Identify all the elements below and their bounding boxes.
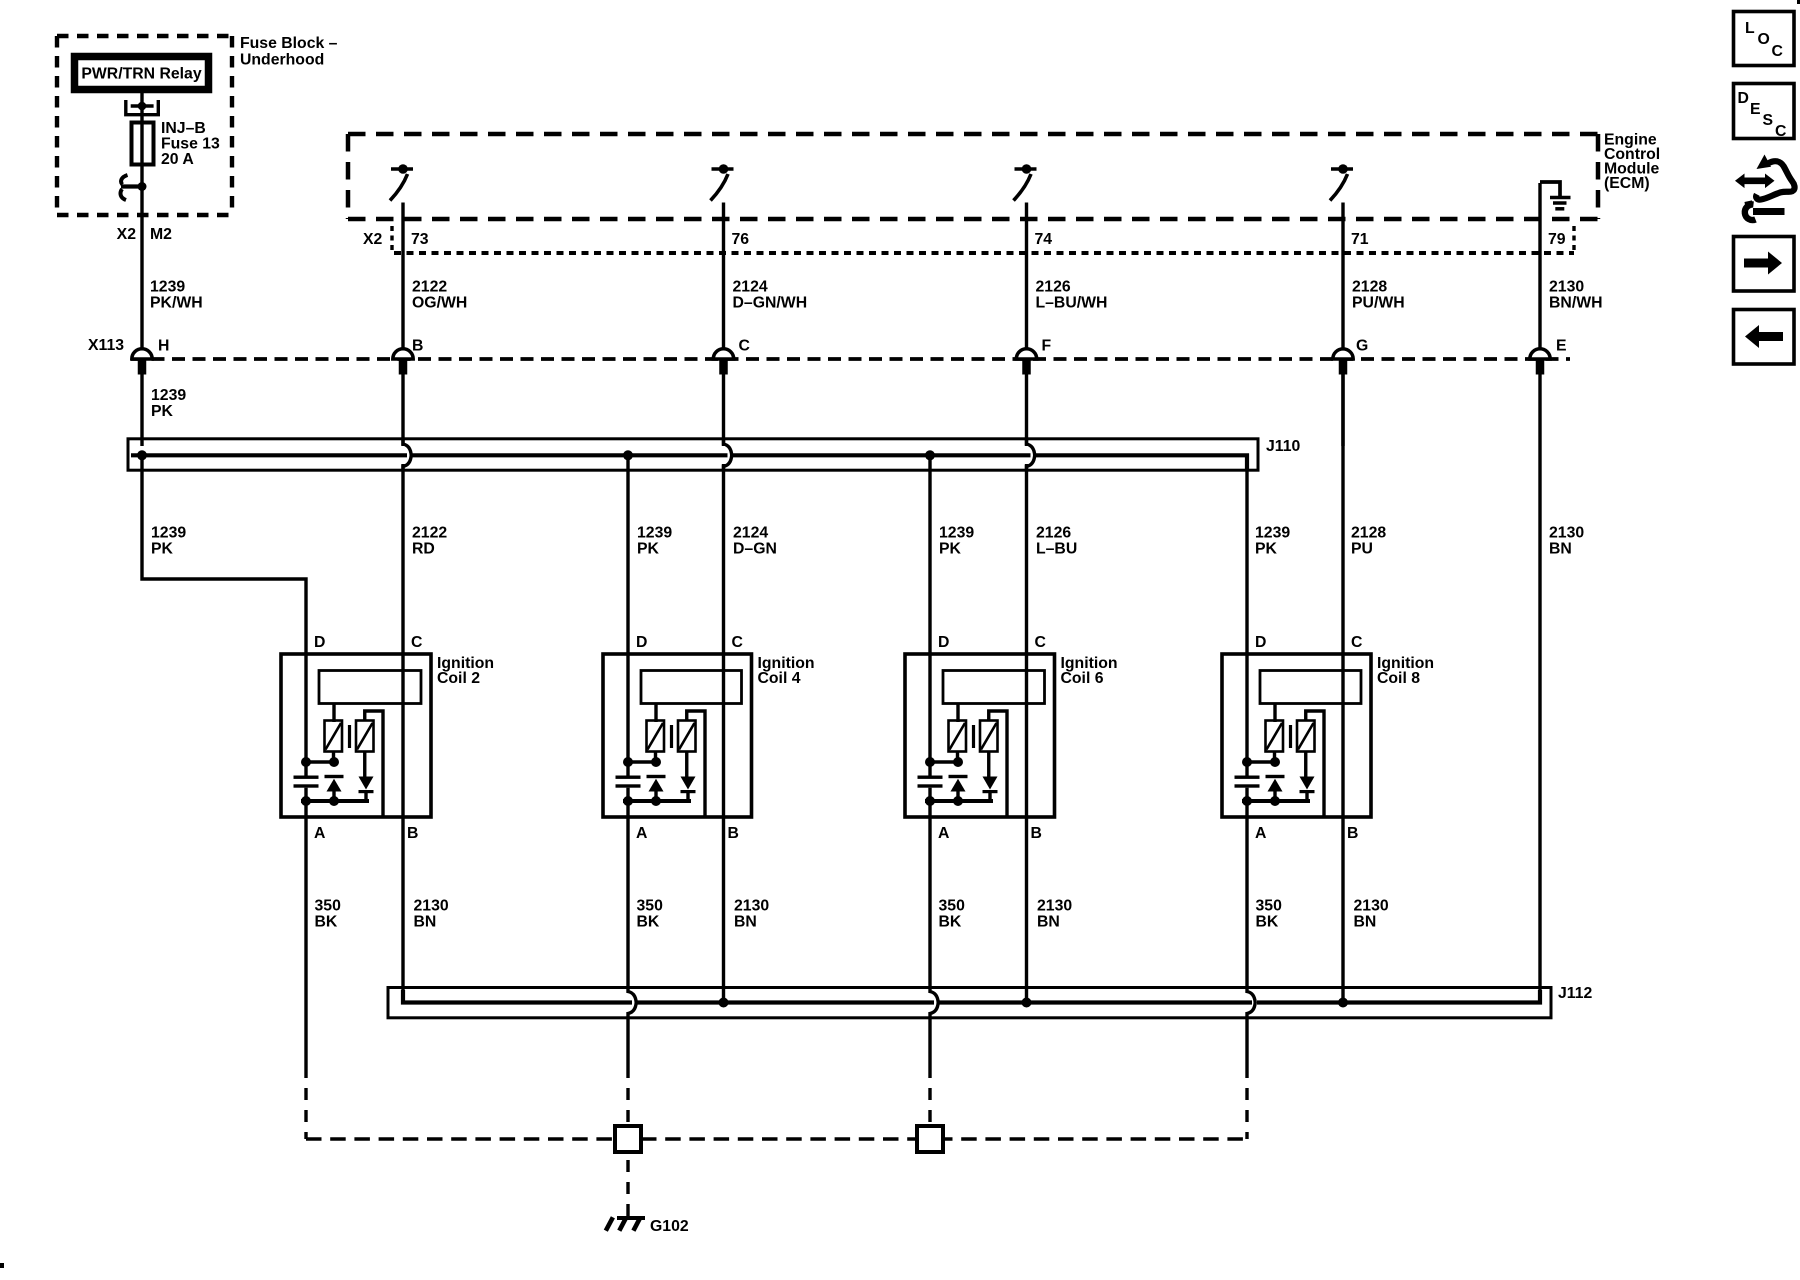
coil 2 resistor right	[356, 721, 374, 752]
fuse block label	[240, 35, 338, 69]
ignition coil 8 label	[1377, 655, 1434, 687]
relay contact PWR/TRN	[120, 175, 146, 200]
coil 2 zener diode	[325, 775, 344, 801]
svg-text:1239: 1239	[150, 279, 185, 296]
svg-text:BN: BN	[734, 914, 757, 931]
svg-text:BK: BK	[637, 914, 660, 931]
svg-text:RD: RD	[412, 541, 435, 558]
coil 6 wire pin A down	[928, 801, 931, 817]
svg-text:2124: 2124	[733, 525, 768, 542]
wire label 2126	[1036, 525, 1077, 558]
coil 6 core bar	[972, 725, 975, 748]
dashed ground wire left	[304, 1088, 307, 1139]
svg-text:PK: PK	[1255, 541, 1278, 558]
svg-text:D: D	[938, 634, 949, 651]
svg-text:2130: 2130	[1549, 525, 1584, 542]
splice pack J110 bus bar	[131, 455, 1247, 470]
wire 1239 PK feed to coil 8	[1245, 468, 1248, 654]
engine control module ECM dashed box	[348, 134, 1598, 219]
ground splice S2	[917, 1126, 943, 1152]
wire 2128 PU to coil 8 pin C	[1341, 374, 1344, 654]
wire label 2124	[733, 279, 808, 312]
coil 4 wire pin A down	[626, 801, 629, 817]
wire coil pin A through J112	[1247, 817, 1255, 1078]
svg-text:PU: PU	[1351, 541, 1373, 558]
splice pack J110 outline	[128, 439, 1258, 470]
wire contact to connector X2 pin M2	[140, 187, 143, 350]
PWR/TRN Relay box	[75, 57, 209, 90]
X113 socket pin F	[1016, 349, 1036, 375]
svg-text:(ECM): (ECM)	[1604, 175, 1650, 192]
splice pack J112 outline	[388, 988, 1551, 1018]
svg-text:G: G	[1356, 338, 1368, 355]
wire label 2130 BN/WH	[1549, 279, 1603, 312]
svg-text:E: E	[1750, 101, 1761, 118]
svg-text:B: B	[412, 338, 423, 355]
wire 1239 PK feed to coil 6	[928, 455, 931, 654]
coil 8 junction bar upper	[1242, 752, 1280, 768]
wire label 350 BK	[315, 898, 342, 931]
svg-text:74: 74	[1035, 231, 1053, 248]
coil 8 wire C through box to pin B	[1341, 654, 1344, 817]
ECM driver switch 2	[711, 164, 734, 200]
svg-text:C: C	[1775, 123, 1786, 140]
coil 4 junction bar upper	[623, 752, 661, 768]
wire coil 6 pin B to J112	[1025, 817, 1028, 1003]
svg-text:A: A	[1255, 825, 1266, 842]
svg-text:2126: 2126	[1036, 525, 1071, 542]
connector X113 dotted line	[131, 357, 1570, 361]
svg-text:BN: BN	[1549, 541, 1572, 558]
svg-text:350: 350	[315, 898, 342, 915]
wire label 1239	[637, 525, 672, 558]
svg-text:2130: 2130	[1549, 279, 1584, 296]
ignition coil 6 label	[1061, 655, 1118, 687]
svg-text:BN: BN	[1037, 914, 1060, 931]
svg-text:S: S	[1763, 112, 1774, 129]
svg-text:B: B	[1031, 825, 1042, 842]
svg-text:A: A	[314, 825, 325, 842]
coil 4 wire winding to resistors	[654, 704, 657, 723]
svg-text:M2: M2	[150, 226, 172, 243]
wire coil 4 pin B to J112	[722, 817, 725, 1003]
coil 8 wire pin A down	[1245, 801, 1248, 817]
coil 8 junction bar lower	[1242, 796, 1310, 806]
J112 junction dot	[1338, 998, 1348, 1008]
svg-text:1239: 1239	[151, 525, 186, 542]
svg-text:BK: BK	[315, 914, 338, 931]
coil 4 resistor left	[647, 721, 665, 752]
coil 6 primary winding block	[943, 671, 1045, 704]
ECM connector row dotted line	[394, 251, 1574, 255]
connector separator left	[390, 226, 393, 253]
ECM driver switch 4	[1330, 164, 1353, 200]
wire crossover hop at J110	[403, 440, 411, 470]
coil 6 zener diode	[949, 775, 968, 801]
svg-text:H: H	[158, 338, 169, 355]
wire label 2130 BN	[1354, 898, 1389, 931]
svg-text:A: A	[636, 825, 647, 842]
wire 1239 PK feed to coil 4	[626, 455, 629, 654]
dashed ground wire from coil 4	[626, 1088, 629, 1126]
coil 4 core bar	[670, 725, 673, 748]
page corner mark top right	[1797, 0, 1800, 4]
splice pack J112 bus bar	[403, 990, 1540, 1003]
coil 6 capacitor	[918, 776, 943, 802]
coil 4 zener diode	[647, 775, 666, 801]
coil 8 resistor right	[1297, 721, 1315, 752]
wire relay to fuse clip	[140, 93, 143, 106]
svg-text:71: 71	[1351, 231, 1369, 248]
wire coil 2 pin A to ground net	[304, 817, 307, 1078]
wire ECM to X113	[722, 203, 725, 350]
coil 2 secondary return link	[365, 711, 383, 817]
J110 junction dot	[623, 450, 633, 460]
coil 4 secondary return link	[687, 711, 705, 817]
svg-text:76: 76	[732, 231, 750, 248]
ignition coil 6 box	[905, 654, 1055, 817]
svg-text:2126: 2126	[1036, 279, 1071, 296]
coil 4 diode	[681, 752, 696, 802]
svg-text:BK: BK	[939, 914, 962, 931]
wire label 1239 PK	[151, 387, 186, 420]
DESC icon box	[1734, 84, 1795, 141]
wire crossover hop at J110	[1027, 440, 1035, 470]
coil 6 junction bar lower	[925, 796, 993, 806]
J110 junction dot	[137, 450, 147, 460]
svg-text:2128: 2128	[1351, 525, 1386, 542]
svg-text:Underhood: Underhood	[240, 52, 324, 69]
connector separator right	[1572, 226, 1575, 253]
LOC icon box	[1734, 12, 1795, 66]
wire label 1239	[939, 525, 974, 558]
svg-text:L: L	[1745, 20, 1755, 37]
wire label 2124	[733, 525, 777, 558]
svg-text:PK: PK	[151, 541, 174, 558]
coil 8 core bar	[1289, 725, 1292, 748]
coil 2 wire pin A down	[304, 801, 307, 817]
wire ECM to X113	[1341, 203, 1344, 350]
svg-text:BN: BN	[414, 914, 437, 931]
svg-text:2130: 2130	[414, 898, 449, 915]
forward arrow icon box	[1734, 237, 1795, 292]
wire X113 to J110	[1025, 374, 1028, 446]
svg-text:D: D	[1738, 90, 1749, 107]
coil 8 capacitor	[1235, 776, 1260, 802]
svg-text:J110: J110	[1266, 438, 1300, 455]
coil 6 junction bar upper	[925, 752, 963, 768]
J112 junction dot	[719, 998, 729, 1008]
wire coil pin A through J112	[930, 817, 938, 1078]
svg-text:B: B	[728, 825, 739, 842]
wire ECM to X113	[1025, 203, 1028, 350]
svg-text:J112: J112	[1558, 985, 1592, 1002]
svg-text:1239: 1239	[1255, 525, 1290, 542]
coil 8 resistor left	[1266, 721, 1284, 752]
ignition coil 2 box	[281, 654, 431, 817]
svg-text:350: 350	[1256, 898, 1283, 915]
svg-text:L–BU/WH: L–BU/WH	[1036, 295, 1108, 312]
svg-text:PU/WH: PU/WH	[1352, 295, 1405, 312]
svg-text:BK: BK	[1256, 914, 1279, 931]
ignition coil 4 box	[603, 654, 752, 817]
wire label 2130 BN	[1037, 898, 1072, 931]
svg-text:Coil 8: Coil 8	[1377, 670, 1420, 687]
dashed ground line bottom	[306, 1137, 1247, 1140]
svg-text:L–BU: L–BU	[1036, 541, 1077, 558]
svg-text:Fuse 13: Fuse 13	[161, 136, 220, 153]
fuse block underhood dashed box	[57, 36, 232, 215]
svg-text:PWR/TRN Relay: PWR/TRN Relay	[81, 66, 201, 83]
svg-text:2130: 2130	[1037, 898, 1072, 915]
coil 4 resistor right	[678, 721, 696, 752]
wire crossover hop at J110	[724, 440, 732, 470]
coil 2 diode	[359, 752, 374, 802]
ignition coil 4 label	[758, 655, 815, 687]
wire label 2130 BN	[734, 898, 769, 931]
svg-text:X2: X2	[117, 226, 137, 243]
wire 2124 D-GN to coil 4 pin C	[722, 464, 725, 654]
coil 8 diode	[1300, 752, 1315, 802]
wire label 2126	[1036, 279, 1108, 312]
svg-text:2124: 2124	[733, 279, 768, 296]
svg-text:Coil 2: Coil 2	[437, 670, 480, 687]
svg-text:73: 73	[411, 231, 429, 248]
svg-text:1239: 1239	[939, 525, 974, 542]
coil 6 resistor left	[949, 721, 967, 752]
pin label X2 M2	[117, 226, 172, 243]
X113 socket pin E	[1530, 349, 1550, 375]
svg-text:D: D	[636, 634, 647, 651]
wire label 1239	[151, 525, 186, 558]
svg-text:Coil 4: Coil 4	[758, 670, 801, 687]
svg-text:C: C	[1772, 43, 1783, 60]
ignition coil 2 label	[437, 655, 494, 687]
coil 8 secondary return link	[1306, 711, 1324, 817]
svg-text:D–GN/WH: D–GN/WH	[733, 295, 808, 312]
wire coil 8 pin B to J112	[1341, 817, 1344, 1003]
wire X113 to J110	[140, 374, 143, 446]
wire label 2128	[1352, 279, 1405, 312]
svg-text:350: 350	[939, 898, 966, 915]
X113 socket pin C	[713, 349, 733, 375]
wire 2122 RD to coil 2 pin C	[401, 464, 404, 654]
svg-text:INJ–B: INJ–B	[161, 120, 206, 137]
coil 6 wire winding to resistors	[956, 704, 959, 723]
coil 4 wire C through box to pin B	[722, 654, 725, 817]
coil 2 wire winding to resistors	[332, 704, 335, 723]
wire ECM ground pin 79 to X113	[1538, 183, 1541, 349]
dashed wire to G102	[626, 1160, 629, 1216]
fuse F13 INJ-B body	[132, 123, 154, 165]
svg-text:F: F	[1042, 338, 1052, 355]
wire coil 2 pin B to J112	[401, 817, 404, 990]
page corner mark bottom left	[0, 1263, 4, 1268]
svg-text:G102: G102	[650, 1218, 689, 1235]
coil 2 resistor left	[325, 721, 343, 752]
wire 1239 PK feed to coil 2	[142, 455, 306, 654]
svg-text:D: D	[314, 634, 325, 651]
fuse label	[161, 120, 220, 168]
ground G102 symbol	[606, 1217, 645, 1230]
wire coil pin A through J112	[628, 817, 636, 1078]
svg-text:OG/WH: OG/WH	[412, 295, 467, 312]
ECM driver switch 3	[1014, 164, 1037, 200]
wire label 2128	[1351, 525, 1386, 558]
svg-text:B: B	[1347, 825, 1358, 842]
wire label 2122	[412, 525, 447, 558]
wire X113 to J110	[401, 374, 404, 446]
X113 socket pin H	[132, 349, 152, 375]
svg-text:2122: 2122	[412, 279, 447, 296]
svg-text:C: C	[1351, 634, 1362, 651]
coil 4 wire D through box	[626, 654, 629, 776]
wire label 1239 PK/WH	[150, 279, 203, 312]
svg-text:X2: X2	[363, 231, 383, 248]
dashed ground wire right	[1245, 1088, 1248, 1139]
svg-text:79: 79	[1548, 231, 1566, 248]
dashed ground wire from coil 6	[928, 1088, 931, 1126]
wire label 2130	[1549, 525, 1584, 558]
svg-text:C: C	[1035, 634, 1046, 651]
wire X113 pin E down right side	[1538, 374, 1541, 990]
coil 2 junction bar upper	[301, 752, 339, 768]
coil 2 junction bar lower	[301, 796, 369, 806]
svg-text:2128: 2128	[1352, 279, 1387, 296]
wire X113 to J110	[722, 374, 725, 446]
wire label 1239	[1255, 525, 1290, 558]
svg-text:X113: X113	[88, 337, 124, 354]
svg-text:2130: 2130	[734, 898, 769, 915]
svg-text:A: A	[938, 825, 949, 842]
svg-text:PK/WH: PK/WH	[150, 295, 203, 312]
ignition coil 8 box	[1222, 654, 1371, 817]
wire label 2122	[412, 279, 467, 312]
J110 junction dot	[925, 450, 935, 460]
svg-text:1239: 1239	[151, 387, 186, 404]
coil 6 secondary return link	[989, 711, 1007, 817]
svg-text:BN: BN	[1354, 914, 1377, 931]
coil 6 wire D through box	[928, 654, 931, 776]
coil 2 core bar	[348, 725, 351, 748]
svg-text:D–GN: D–GN	[733, 541, 777, 558]
svg-text:D: D	[1255, 634, 1266, 651]
coil 6 diode	[983, 752, 998, 802]
ECM label	[1604, 132, 1660, 193]
coil 4 junction bar lower	[623, 796, 691, 806]
svg-text:1239: 1239	[637, 525, 672, 542]
coil 8 primary winding block	[1260, 671, 1361, 704]
wire label 350 BK	[939, 898, 966, 931]
ground splice S1	[615, 1126, 641, 1152]
ECM internal ground for pin 79	[1540, 182, 1571, 209]
X113 socket pin B	[393, 349, 413, 375]
svg-text:PK: PK	[151, 403, 174, 420]
coil 6 resistor right	[980, 721, 998, 752]
svg-text:Coil 6: Coil 6	[1061, 670, 1104, 687]
coil 2 primary winding block	[319, 671, 421, 704]
wire fuse to relay contact	[140, 106, 143, 187]
wire ECM to X113	[401, 203, 404, 350]
svg-text:2130: 2130	[1354, 898, 1389, 915]
coil 2 wire D through box	[304, 654, 307, 776]
wire label 350 BK	[1256, 898, 1283, 931]
svg-text:PK: PK	[637, 541, 660, 558]
wire X113 to J110	[1341, 374, 1344, 446]
coil 8 wire winding to resistors	[1273, 704, 1276, 723]
coil 2 capacitor	[294, 776, 319, 802]
back arrow icon box	[1734, 310, 1795, 365]
coil 2 wire C through box to pin B	[401, 654, 404, 817]
wire 2126 L-BU to coil 6 pin F	[1025, 464, 1028, 654]
wire label 2130 BN	[414, 898, 449, 931]
svg-text:20 A: 20 A	[161, 151, 194, 168]
svg-text:B: B	[407, 825, 418, 842]
svg-text:E: E	[1556, 338, 1567, 355]
coil 4 capacitor	[616, 776, 641, 802]
svg-text:C: C	[732, 634, 743, 651]
coil 8 zener diode	[1266, 775, 1285, 801]
ECM driver switch 1	[390, 164, 413, 200]
svg-text:BN/WH: BN/WH	[1549, 295, 1603, 312]
J112 junction dot	[1022, 998, 1032, 1008]
svg-text:PK: PK	[939, 541, 962, 558]
X113 socket pin G	[1333, 349, 1353, 375]
coil 8 wire D through box	[1245, 654, 1248, 776]
svg-text:C: C	[411, 634, 422, 651]
wire label 350 BK	[637, 898, 664, 931]
coil 6 wire C through box to pin B	[1025, 654, 1028, 817]
svg-text:Fuse Block –: Fuse Block –	[240, 35, 338, 52]
svg-text:2122: 2122	[412, 525, 447, 542]
coil 4 primary winding block	[641, 671, 742, 704]
fuse holder clip	[126, 100, 159, 115]
diagnostic tool icon	[1735, 155, 1795, 221]
svg-text:O: O	[1758, 31, 1770, 48]
svg-text:350: 350	[637, 898, 664, 915]
svg-text:C: C	[739, 338, 750, 355]
